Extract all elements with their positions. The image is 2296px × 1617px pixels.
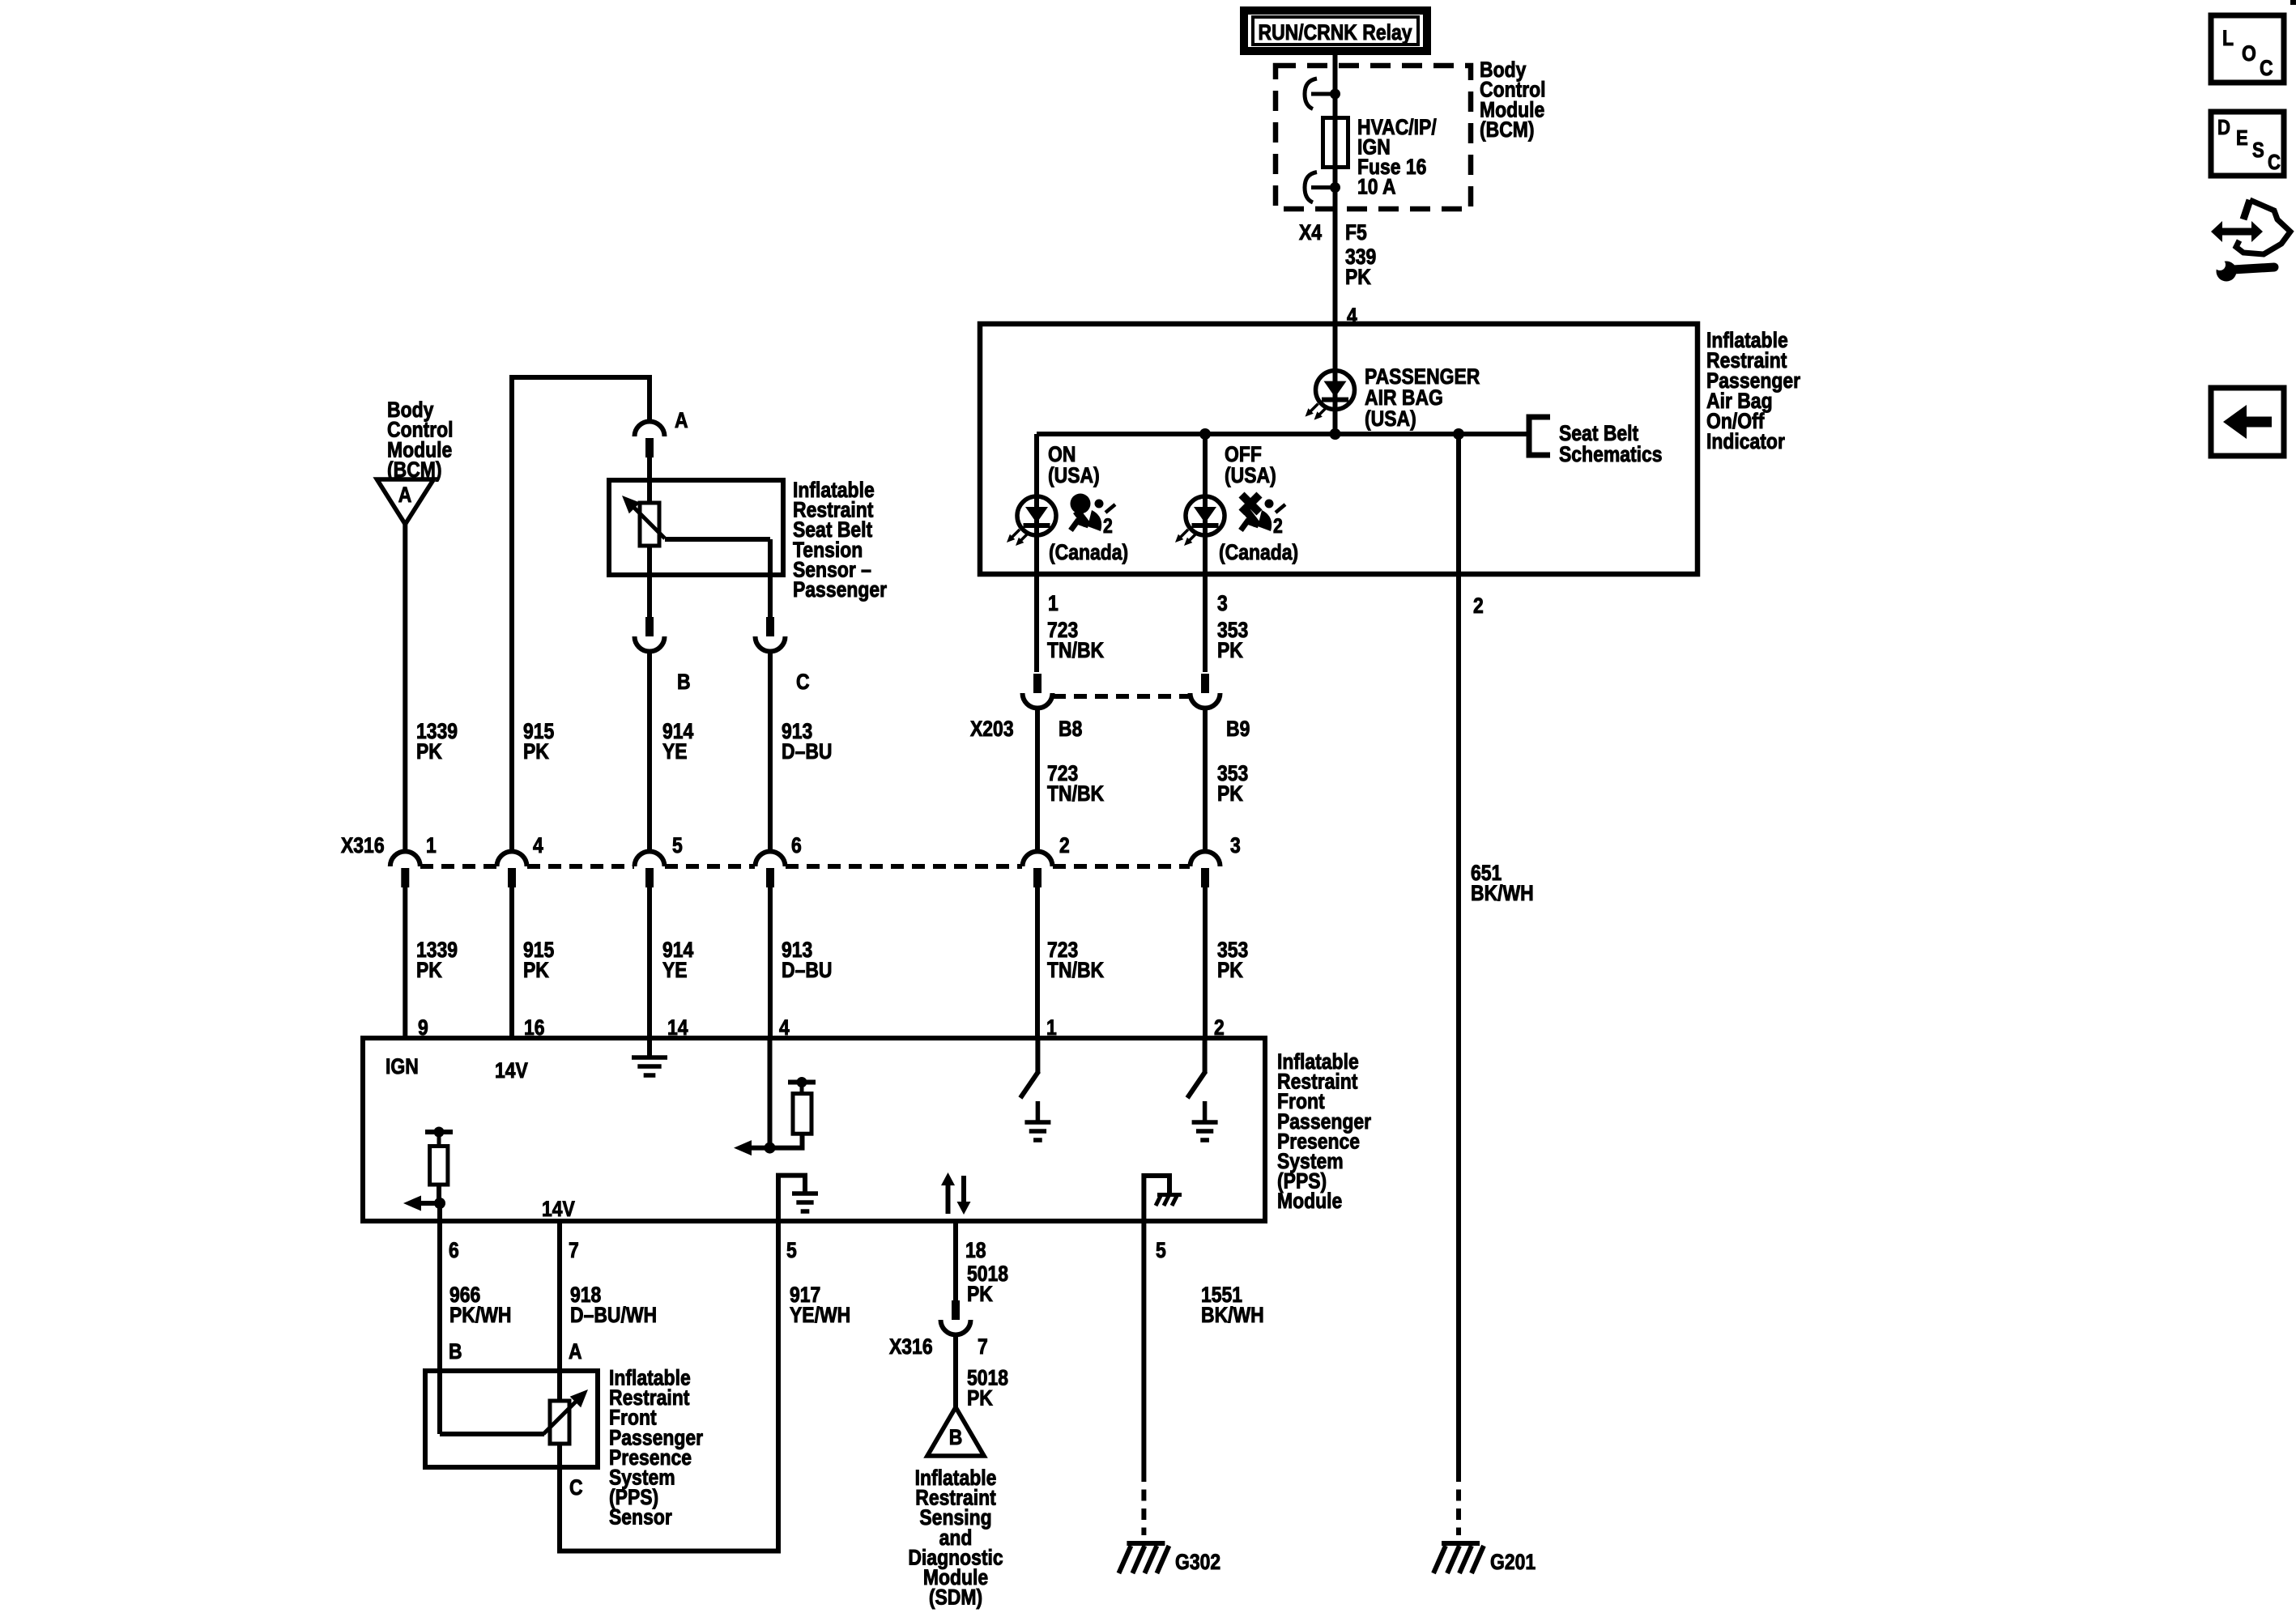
svg-text:Passenger: Passenger [793,577,887,602]
svg-text:A: A [398,483,412,507]
svg-text:S: S [2252,138,2264,162]
svg-text:1: 1 [1048,591,1059,615]
svg-text:PK/WH: PK/WH [449,1303,511,1327]
svg-text:5: 5 [1156,1238,1166,1262]
svg-text:PK: PK [416,739,442,764]
svg-text:F5: F5 [1345,220,1367,245]
svg-text:(USA): (USA) [1048,463,1100,487]
svg-text:X203: X203 [970,717,1014,741]
svg-text:3: 3 [1217,591,1228,615]
svg-text:4: 4 [533,833,543,857]
svg-text:D–BU: D–BU [782,958,832,982]
svg-text:2: 2 [1273,514,1283,537]
svg-text:6: 6 [449,1238,459,1262]
svg-text:RUN/CRNK Relay: RUN/CRNK Relay [1259,20,1412,45]
svg-text:PK: PK [1217,781,1243,806]
svg-text:(USA): (USA) [1225,463,1276,487]
svg-text:B8: B8 [1059,717,1082,741]
svg-text:5: 5 [672,833,683,857]
svg-text:YE: YE [662,739,688,764]
svg-text:B: B [677,670,691,694]
svg-text:C: C [2268,151,2281,174]
svg-text:PK: PK [967,1282,993,1306]
svg-text:(SDM): (SDM) [929,1585,982,1610]
svg-text:D: D [2217,116,2230,139]
svg-text:X4: X4 [1299,220,1322,245]
svg-text:10 A: 10 A [1357,175,1396,199]
svg-text:PK: PK [967,1386,993,1411]
svg-text:Module: Module [1277,1189,1342,1213]
svg-text:IGN: IGN [386,1054,419,1079]
svg-text:C: C [2260,56,2273,80]
svg-text:PK: PK [1217,638,1243,662]
svg-text:E: E [2236,126,2248,150]
svg-text:(Canada): (Canada) [1219,540,1298,564]
svg-text:X316: X316 [889,1334,933,1359]
svg-text:TN/BK: TN/BK [1047,958,1104,982]
svg-text:C: C [796,670,810,694]
svg-text:14V: 14V [495,1058,528,1083]
svg-text:2: 2 [1103,514,1113,537]
svg-text:G201: G201 [1490,1550,1536,1574]
svg-text:1: 1 [426,833,437,857]
svg-text:C: C [569,1475,583,1500]
svg-text:5: 5 [786,1238,797,1262]
svg-text:(BCM): (BCM) [1480,117,1535,142]
svg-text:X316: X316 [341,833,385,857]
svg-text:18: 18 [965,1238,986,1262]
svg-text:YE: YE [662,958,688,982]
svg-text:(USA): (USA) [1365,406,1416,431]
svg-text:(Canada): (Canada) [1049,540,1128,564]
svg-text:B9: B9 [1226,717,1250,741]
svg-text:YE/WH: YE/WH [790,1303,850,1327]
svg-text:6: 6 [791,833,802,857]
svg-text:D–BU: D–BU [782,739,832,764]
svg-text:PK: PK [416,958,442,982]
svg-text:G302: G302 [1175,1550,1220,1574]
svg-text:BK/WH: BK/WH [1471,881,1534,905]
svg-text:7: 7 [569,1238,579,1262]
svg-text:TN/BK: TN/BK [1047,781,1104,806]
svg-text:3: 3 [1230,833,1241,857]
svg-text:14V: 14V [542,1197,575,1221]
svg-text:7: 7 [978,1334,988,1359]
svg-text:2: 2 [1473,594,1484,618]
svg-text:Sensor: Sensor [609,1505,672,1530]
svg-text:Schematics: Schematics [1559,442,1663,466]
svg-text:PK: PK [1217,958,1243,982]
svg-text:2: 2 [1059,833,1070,857]
svg-text:D–BU/WH: D–BU/WH [570,1303,657,1327]
svg-text:PK: PK [1345,265,1371,289]
svg-text:PK: PK [523,739,549,764]
svg-text:TN/BK: TN/BK [1047,638,1104,662]
svg-text:A: A [569,1339,582,1364]
svg-text:O: O [2242,41,2256,66]
svg-text:Indicator: Indicator [1706,429,1785,453]
svg-text:PK: PK [523,958,549,982]
svg-text:A: A [675,408,688,432]
svg-text:L: L [2222,26,2234,50]
svg-text:BK/WH: BK/WH [1201,1303,1264,1327]
svg-text:B: B [449,1339,462,1364]
svg-text:B: B [949,1425,963,1449]
